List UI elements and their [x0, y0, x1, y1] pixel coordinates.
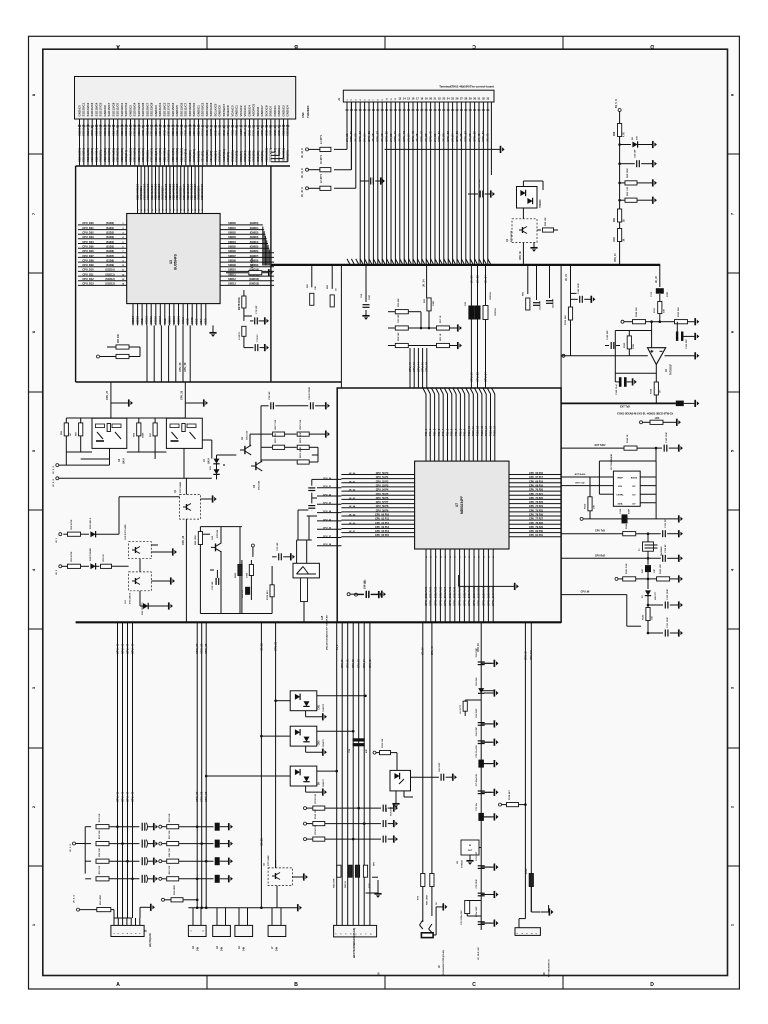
svg-text:JK_40: JK_40 [477, 133, 481, 142]
resistor R103 10K row [304, 822, 307, 825]
svg-text:CPU_D12: CPU_D12 [82, 278, 94, 281]
svg-text:JK_42: JK_42 [486, 133, 490, 142]
svg-text:CPU_70 P20: CPU_70 P20 [529, 489, 544, 492]
svg-text:CPU_37: CPU_37 [376, 131, 380, 142]
svg-text:C151 120P: C151 120P [667, 617, 669, 628]
svg-text:R56 680R: R56 680R [174, 885, 176, 895]
svg-text:JK_26: JK_26 [415, 133, 419, 142]
svg-text:CPU_42: CPU_42 [412, 362, 416, 372]
CH3 ground [305, 746, 307, 752]
resistor R801 100R vertical [249, 565, 253, 576]
svg-text:R90 1K: R90 1K [103, 554, 105, 562]
wire C173 to R151 [659, 294, 661, 301]
capacitor C43 ladder [141, 875, 143, 883]
capacitor black mid ladder 1 [215, 823, 220, 831]
wire EXT TxD2 y448 [561, 447, 624, 449]
U8 chain main wire [480, 622, 482, 930]
svg-text:DTC114EB: DTC114EB [179, 482, 182, 493]
svg-text:BU3584FS: BU3584FS [174, 254, 178, 270]
svg-text:CPU_110/AN2: CPU_110/AN2 [472, 587, 476, 606]
resistor R93 470R [68, 564, 81, 568]
svg-text:CPU_23: CPU_23 [323, 503, 332, 505]
junction at R69 branch [618, 199, 621, 202]
svg-text:LPA: LPA [655, 417, 660, 420]
connector JK_6_O [56, 464, 59, 467]
wires JK_30 JK_32 JK_36 drops [470, 265, 472, 388]
svg-text:24N: 24N [276, 946, 279, 951]
svg-text:220K: 220K [633, 343, 635, 349]
svg-text:JK_63: JK_63 [349, 498, 356, 500]
svg-text:Y66UF3: Y66UF3 [540, 199, 542, 208]
svg-text:(S1D9): (S1D9) [106, 264, 114, 267]
svg-text:MR7B 680R: MR7B 680R [239, 297, 241, 310]
ground of C66 100P [484, 723, 494, 725]
U5 left pin wires [561, 476, 613, 478]
ground right of R61 [457, 342, 459, 349]
capacitor C79 50P [243, 336, 245, 348]
svg-text:CPU_26: CPU_26 [323, 528, 332, 530]
resistor R53 560R [77, 908, 80, 911]
svg-text:2SC1623: 2SC1623 [247, 430, 249, 440]
resistor R90 NC [101, 564, 112, 568]
capacitor C31 56P [272, 556, 277, 558]
svg-text:(S1D5): (S1D5) [106, 246, 114, 249]
connector J3 body [213, 925, 231, 936]
wire junction to op-amp plus input [651, 322, 653, 348]
svg-text:JK_45_O: JK_45_O [301, 187, 304, 197]
svg-text:R128 4K7: R128 4K7 [508, 789, 511, 800]
connector J5 body [111, 925, 144, 936]
svg-text:CPU_24: CPU_24 [323, 510, 332, 513]
svg-text:CPU_59: CPU_59 [472, 131, 476, 142]
svg-text:C: C [472, 43, 476, 49]
resistor R102 10K row [304, 807, 307, 810]
svg-text:DTC/UNTR: DTC/UNTR [511, 230, 513, 242]
svg-text:(GND1): (GND1) [250, 227, 259, 230]
svg-text:C166 10uF: C166 10uF [616, 383, 618, 395]
resistor R60 43K vertical [427, 298, 431, 311]
ground right of R870 [325, 431, 327, 438]
ground right of C154 [678, 555, 680, 562]
CPU top pin wires [423, 388, 426, 394]
inductor L4 4PY1 [320, 147, 331, 151]
ground right of C79 [264, 344, 266, 351]
U7 bottom pin wires [425, 549, 427, 622]
wire A15 stem down [303, 602, 305, 623]
diode D32 SH6 [478, 688, 484, 693]
ground of C76b 100P [484, 922, 494, 924]
bottom bundle CPU_45-48 wires [117, 622, 119, 918]
svg-text:(GND13): (GND13) [249, 283, 259, 286]
svg-text:JK_22: JK_22 [398, 133, 402, 142]
svg-text:C160 56P: C160 56P [607, 330, 609, 340]
svg-text:P40_4: P40_4 [442, 428, 445, 436]
svg-text:CPU_83: CPU_83 [359, 659, 361, 668]
svg-text:G10 DTC114EE: G10 DTC114EE [124, 524, 127, 540]
svg-text:BSCN: BSCN [631, 478, 638, 480]
svg-text:JK_6_O: JK_6_O [53, 466, 55, 474]
ground right of J8 [442, 903, 444, 910]
resistor R61 1K row3 [437, 343, 450, 347]
svg-text:CPU_76 P26: CPU_76 P26 [529, 514, 544, 517]
diode D7 HSC277 [647, 579, 649, 589]
resistor R62 10K mid ladder [159, 860, 162, 863]
svg-text:D24 POWER: D24 POWER [89, 548, 92, 561]
junction ladder row 1 [116, 825, 119, 828]
svg-text:C43 56P: C43 56P [634, 149, 637, 158]
ground right of Q4 [200, 498, 211, 500]
svg-text:1K: 1K [336, 288, 338, 291]
svg-text:J1: J1 [337, 97, 341, 101]
svg-text:(GND3): (GND3) [250, 236, 259, 239]
svg-text:SSTB: SSTB [190, 317, 194, 324]
svg-text:KEY/BD/SWITCH: KEY/BD/SWITCH [549, 959, 551, 977]
svg-text:KR_9V: KR_9V [423, 647, 425, 655]
wire photocoupler down to bus [522, 208, 524, 219]
svg-text:S0D00: S0D00 [228, 222, 236, 225]
svg-text:CPU_D05: CPU_D05 [82, 246, 94, 249]
svg-text:CPU_47: CPU_47 [125, 791, 129, 802]
junction mid ladder 3 [205, 860, 208, 863]
svg-text:KR_SK: KR_SK [260, 838, 263, 846]
svg-text:C74 100P: C74 100P [475, 879, 478, 889]
svg-text:S2D09: S2D09 [154, 316, 158, 324]
svg-text:CPU_26: CPU_26 [179, 362, 182, 372]
svg-text:P20_2: P20_2 [434, 428, 437, 436]
ground right of op-amp [694, 352, 696, 359]
svg-text:CPU_D13: CPU_D13 [82, 283, 94, 286]
jack A15 box [293, 563, 319, 578]
svg-text:JK_14: JK_14 [362, 133, 366, 142]
wire diodes to transistors [217, 454, 237, 456]
capacitor C72 10u [478, 813, 484, 821]
svg-text:R98 100R: R98 100R [334, 878, 336, 888]
svg-text:CPU_D07: CPU_D07 [82, 255, 94, 258]
svg-text:R164: R164 [650, 388, 653, 394]
svg-text:CPU_D08: CPU_D08 [82, 259, 94, 262]
capacitor C154 8P [662, 555, 664, 562]
capacitor C42 ladder [141, 857, 143, 865]
capacitor C160 56P [605, 345, 609, 347]
junction mid ladder 2 [200, 842, 203, 845]
transistor Q5 dashed box [268, 868, 292, 886]
svg-text:10K: 10K [315, 286, 317, 290]
minus input wire [561, 355, 648, 357]
svg-text:CPU_61: CPU_61 [481, 131, 485, 142]
svg-text:CPU_96: CPU_96 [581, 592, 590, 594]
svg-text:S0D06: S0D06 [228, 250, 236, 253]
wire CPU TxD y533 [561, 533, 623, 535]
svg-text:CPU_47: CPU_47 [125, 643, 129, 654]
ground right of G10 wire [172, 548, 174, 555]
svg-text:P140_14: P140_14 [485, 425, 488, 436]
capacitor C40 ladder [141, 823, 143, 831]
svg-text:JK_30: JK_30 [469, 275, 473, 283]
svg-text:C66 100P: C66 100P [439, 762, 441, 772]
svg-text:S1D23_1: S1D23_1 [286, 124, 290, 136]
capacitor C152 100P [648, 604, 663, 606]
svg-text:R156 56K: R156 56K [565, 315, 567, 325]
resistor R54 10K ladder [85, 860, 91, 862]
wire opto outputs to diodes [202, 439, 212, 441]
svg-text:JK_65: JK_65 [349, 515, 356, 517]
svg-text:CH3: CH3 [319, 740, 321, 745]
svg-text:C?? 100P: C?? 100P [365, 579, 367, 589]
resistor R164 1K vertical [654, 382, 658, 395]
svg-text:R101: R101 [369, 882, 371, 888]
svg-text:R38 10K: R38 10K [545, 217, 547, 226]
wire CPU_96 y594 L-shape [561, 594, 627, 596]
svg-text:C29 NC226R: C29 NC226R [309, 387, 311, 400]
svg-text:U2: U2 [169, 260, 173, 264]
resistor R106 4K7 vertical [270, 585, 274, 597]
svg-text:CPU_51: CPU_51 [437, 131, 441, 142]
svg-text:P1_1: P1_1 [337, 644, 339, 650]
svg-text:CPU_41: CPU_41 [393, 131, 397, 142]
svg-text:JK_66: JK_66 [349, 523, 356, 525]
svg-text:CPU_40: CPU_40 [408, 362, 412, 372]
svg-text:CPU_81 P31: CPU_81 P31 [529, 534, 544, 537]
svg-text:JK_18: JK_18 [380, 133, 384, 142]
svg-text:VREF: VREF [617, 478, 623, 480]
wire R66 to chain [619, 137, 621, 210]
capacitor C66b 100P [411, 776, 439, 778]
inductor L12 2717 [463, 701, 467, 711]
IC U8 H7805U body [461, 840, 479, 855]
svg-text:CPU_21: CPU_21 [275, 641, 278, 651]
svg-text:HA/C?R.INTERFACE(PLAS): HA/C?R.INTERFACE(PLAS) [353, 928, 356, 958]
svg-text:CPU_48: CPU_48 [130, 791, 134, 802]
svg-text:CPU_26: CPU_26 [181, 390, 184, 400]
svg-text:(GND6): (GND6) [250, 250, 259, 253]
svg-text:CPU_D03: CPU_D03 [82, 236, 94, 239]
resistor R87 vertical [79, 423, 83, 436]
svg-text:JK_22: JK_22 [656, 276, 658, 283]
capacitor C76b 100P [478, 921, 485, 923]
wire CPU_26 from region box down [184, 382, 186, 418]
resistor R61 10K mid ladder [159, 842, 162, 845]
resistor R101 1K vertical [363, 865, 367, 877]
svg-text:S0D03: S0D03 [228, 236, 236, 239]
svg-text:(S1D3): (S1D3) [106, 236, 114, 239]
svg-text:10P: 10P [654, 569, 656, 573]
diode D24 POWER [90, 563, 95, 569]
U2 top pin wires [137, 166, 139, 214]
capacitor C58 56P [360, 180, 369, 182]
svg-text:CPU_10: CPU_10 [615, 253, 617, 262]
junction ladder row 4 [131, 878, 134, 881]
svg-text:C31 56P: C31 56P [277, 542, 279, 551]
svg-text:R68 220K: R68 220K [627, 168, 629, 178]
resistor R149 680R [623, 532, 636, 536]
connector row2 circle [59, 565, 62, 568]
svg-text:(GND12): (GND12) [249, 278, 259, 281]
U7 right pin wires [509, 474, 561, 476]
wire Q4 down to bottom bus [185, 519, 187, 622]
svg-text:JK_64: JK_64 [349, 505, 356, 508]
svg-text:CRC_37: CRC_37 [195, 643, 199, 654]
svg-text:P50_5: P50_5 [446, 428, 449, 436]
svg-text:DTC114EF: DTC114EF [267, 855, 270, 866]
svg-text:100R: 100R [247, 572, 249, 578]
svg-text:24N: 24N [243, 946, 246, 951]
resistor R871 50K [261, 446, 272, 448]
small ground right of C166 [632, 378, 634, 385]
svg-text:CPU_27: CPU_27 [323, 536, 332, 538]
ground ladder row 3 [153, 858, 155, 865]
svg-text:S2D11: S2D11 [149, 316, 153, 324]
ground right of C77 [381, 591, 383, 598]
resistor R?? LPA [640, 421, 643, 424]
wires to J9 [524, 622, 526, 918]
svg-text:D: D [650, 982, 654, 988]
svg-text:A: A [116, 43, 120, 49]
J1 pin jogs into bus [347, 259, 350, 265]
transistor G11 dashed box [129, 572, 152, 591]
svg-text:R60 10K: R60 10K [169, 813, 171, 822]
grounds under D34 [395, 791, 397, 803]
resistor R151 33K vertical [658, 302, 662, 314]
svg-text:JK_67: JK_67 [349, 531, 356, 533]
diode D23 LED-S [90, 531, 95, 537]
connector J6 body [334, 925, 377, 937]
svg-text:(S1D4): (S1D4) [106, 241, 114, 244]
svg-text:(S1D6): (S1D6) [106, 250, 114, 253]
svg-text:CPU_82: CPU_82 [353, 659, 355, 668]
svg-text:SCLK: SCLK [181, 317, 185, 324]
svg-text:P110_11: P110_11 [472, 426, 475, 436]
capacitor C60 black on JK_30 wire [468, 306, 474, 320]
svg-text:S0D10: S0D10 [228, 269, 236, 272]
svg-text:220P: 220P [667, 291, 669, 297]
ground right of C30 [378, 591, 380, 598]
svg-text:R159: R159 [585, 503, 587, 509]
svg-text:JK_34: JK_34 [483, 275, 487, 283]
svg-text:CPU_53 P3: CPU_53 P3 [376, 484, 389, 487]
svg-text:P30_3: P30_3 [438, 428, 441, 436]
svg-text:CPU_85: CPU_85 [370, 659, 372, 668]
capacitor C73 100P [478, 865, 485, 867]
svg-text:CPU_56 P6: CPU_56 P6 [376, 497, 389, 500]
capacitor C166 black below feedback [614, 373, 616, 382]
svg-text:DTC144CE: DTC144CE [129, 592, 132, 604]
svg-text:S0D09: S0D09 [228, 264, 236, 267]
transistor G05 [215, 544, 217, 552]
svg-text:Terminal(TH01-46)/50V/The-cont: Terminal(TH01-46)/50V/The-control-board [439, 85, 494, 89]
svg-text:CPU_28: CPU_28 [184, 362, 187, 372]
connector J7 body [268, 925, 286, 936]
svg-text:CPU_61 P11: CPU_61 P11 [375, 518, 389, 521]
connector CN6 body [75, 77, 296, 120]
svg-text:(GND9): (GND9) [250, 264, 259, 267]
transistor Q1 dashed box [512, 219, 537, 243]
svg-text:CPU_80: CPU_80 [342, 659, 344, 668]
svg-text:CPU_50 P0: CPU_50 P0 [376, 472, 389, 475]
svg-text:JK_38: JK_38 [468, 133, 472, 142]
vertical link to caps pair [317, 447, 319, 462]
svg-text:GND: GND [204, 318, 208, 324]
svg-text:CPU_113/AN5: CPU_113/AN5 [486, 587, 490, 606]
svg-text:CPU_65 P15: CPU_65 P15 [375, 534, 390, 537]
U5 loop top wire [599, 460, 656, 462]
svg-text:CPU_46: CPU_46 [120, 791, 124, 802]
svg-text:HA(V8L)ACK: HA(V8L)ACK [149, 933, 152, 947]
ground wire right of U7 bottom [459, 585, 514, 587]
D9 right wire [317, 770, 337, 772]
input connector arrows [562, 354, 565, 357]
svg-text:CRC_38: CRC_38 [200, 643, 204, 654]
ground right of C151 [678, 629, 680, 636]
resistor R870 10K [297, 432, 309, 436]
ground mid ladder 1 [228, 823, 230, 830]
svg-text:S0D08: S0D08 [228, 259, 236, 262]
resistor R873 560R row3 [261, 459, 297, 461]
svg-text:JK_34: JK_34 [450, 133, 454, 142]
capacitor C66 100P [478, 722, 485, 724]
wire D8 to ground [637, 144, 652, 146]
junction R146 C140 [655, 447, 658, 450]
wires G05 cluster [220, 527, 222, 543]
svg-text:CH1: CH1 [319, 704, 321, 709]
svg-text:R54 560R: R54 560R [251, 257, 254, 268]
svg-text:C156: C156 [620, 508, 622, 514]
svg-text:JK_SLD_M2: JK_SLD_M2 [478, 947, 480, 960]
opto cluster lower rails [66, 451, 92, 453]
D9 ground [305, 786, 307, 792]
resistor R57 1K row2 [437, 326, 450, 330]
svg-text:CRC_37: CRC_37 [195, 791, 199, 802]
svg-text:R57 1K: R57 1K [440, 315, 442, 323]
svg-text:(GND7): (GND7) [250, 255, 259, 258]
svg-text:CRC_39: CRC_39 [204, 791, 208, 802]
resistor R68b 10K [116, 354, 129, 358]
resistor R126 10K [373, 751, 376, 754]
svg-text:R58 56P: R58 56P [398, 332, 400, 341]
svg-text:C69 100P: C69 100P [476, 647, 478, 657]
svg-text:(S1D8): (S1D8) [106, 259, 114, 262]
svg-text:JK_62: JK_62 [349, 490, 356, 492]
resistor R69 1.2K [620, 199, 625, 201]
inductor L5 4PY1 [320, 168, 331, 172]
svg-text:GND: GND [163, 318, 167, 324]
wire CPU_21 [275, 622, 277, 868]
ground branch right of CPU_27 wire [111, 402, 128, 404]
svg-text:JK_12: JK_12 [354, 133, 358, 142]
svg-text:R55 10K: R55 10K [99, 865, 101, 874]
diode D47 black on vertical [647, 558, 649, 565]
ground right of C152 [678, 601, 680, 608]
ground at end of y149 wire [500, 146, 502, 153]
wire pin3 to L2 [334, 187, 356, 189]
svg-text:(S1D10): (S1D10) [105, 269, 114, 272]
svg-text:CPU RxD: CPU RxD [595, 555, 605, 557]
junction row wires [420, 327, 423, 330]
U2 right pin bundle bend down to bus [262, 227, 264, 266]
svg-text:SOE: SOE [195, 318, 199, 324]
svg-text:CPU_57 P7: CPU_57 P7 [376, 501, 389, 504]
svg-text:JK_32: JK_32 [475, 275, 479, 283]
ground right of R162 [678, 575, 680, 582]
svg-text:CPU_106/AN6: CPU_106/AN6 [453, 586, 457, 606]
resistor R877 10K [250, 433, 272, 435]
wire R64 to R63 [619, 222, 621, 229]
connector JK_44 [306, 168, 309, 171]
svg-text:CPU_107/AN7: CPU_107/AN7 [458, 586, 462, 606]
resistor R145 15K vertical [646, 608, 650, 621]
svg-text:3K: 3K [624, 238, 626, 241]
resistor MR7B vertical [242, 296, 246, 308]
svg-text:CND/C4: CND/C4 [286, 105, 290, 116]
